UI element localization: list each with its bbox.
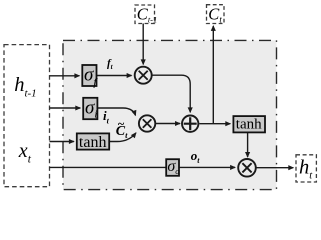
svg-text:tanh: tanh	[236, 117, 262, 133]
svg-text:tanh: tanh	[79, 134, 107, 151]
svg-text:~: ~	[118, 117, 125, 131]
